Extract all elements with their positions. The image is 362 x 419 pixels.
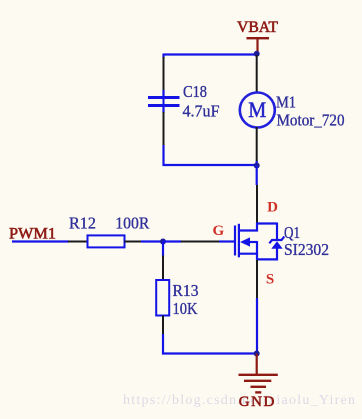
junction gate node bbox=[160, 239, 166, 245]
junction drain node bbox=[254, 163, 260, 169]
wire cap top corner bbox=[162, 54, 164, 59]
transistor Q1 (N-MOSFET) bbox=[219, 223, 284, 261]
wire motor to junction bbox=[256, 161, 258, 166]
pin R12.2 bbox=[125, 241, 143, 243]
pin M1.1 bbox=[256, 55, 258, 93]
pin M1.2 bbox=[256, 127, 258, 162]
svg-text:S: S bbox=[266, 272, 274, 288]
wire gate node to Q1 bbox=[163, 240, 182, 242]
svg-text:G: G bbox=[212, 223, 224, 239]
pin R13.1 bbox=[162, 256, 164, 281]
svg-text:R13: R13 bbox=[173, 281, 199, 300]
svg-text:GND: GND bbox=[239, 394, 275, 410]
wire drain node down bbox=[256, 166, 258, 186]
pin Q1 source bbox=[256, 260, 258, 299]
svg-text:SI2302: SI2302 bbox=[284, 240, 329, 259]
ground bbox=[239, 354, 278, 393]
wire PWM1 to R12 bbox=[12, 240, 69, 242]
pin R12.1 bbox=[68, 241, 88, 243]
wire R12 to junction bbox=[141, 240, 164, 242]
svg-text:VBAT: VBAT bbox=[237, 19, 278, 36]
junction gnd node bbox=[254, 351, 260, 357]
power port VBAT bbox=[237, 19, 278, 53]
capacitor C18 bbox=[148, 90, 180, 113]
wire cap bottom corner bbox=[164, 145, 257, 165]
svg-text:4.7uF: 4.7uF bbox=[183, 102, 220, 121]
svg-text:R12: R12 bbox=[69, 214, 96, 233]
wire source to gnd node bbox=[256, 298, 258, 354]
pin Q1 drain bbox=[256, 185, 258, 223]
resistor R12 bbox=[88, 235, 125, 247]
svg-text:M1: M1 bbox=[276, 93, 296, 112]
svg-text:C18: C18 bbox=[183, 82, 207, 101]
svg-text:D: D bbox=[267, 200, 278, 216]
pin R13.2 bbox=[162, 316, 164, 336]
pin C18.2 bbox=[163, 112, 165, 146]
pin C18.1 bbox=[163, 57, 165, 90]
svg-text:Motor_720: Motor_720 bbox=[277, 111, 345, 130]
junction VBAT rail bbox=[254, 51, 260, 57]
wire R13 to gnd node bbox=[163, 334, 257, 354]
motor M1 bbox=[240, 93, 275, 128]
wire gate node down to R13 bbox=[162, 242, 164, 257]
wire top rail bbox=[164, 53, 257, 55]
svg-text:M: M bbox=[248, 97, 266, 122]
svg-text:PWM1: PWM1 bbox=[9, 226, 56, 243]
resistor R13 bbox=[156, 280, 169, 316]
pin Q1 gate bbox=[181, 241, 220, 243]
svg-text:100R: 100R bbox=[115, 214, 149, 233]
svg-text:10K: 10K bbox=[173, 299, 198, 318]
